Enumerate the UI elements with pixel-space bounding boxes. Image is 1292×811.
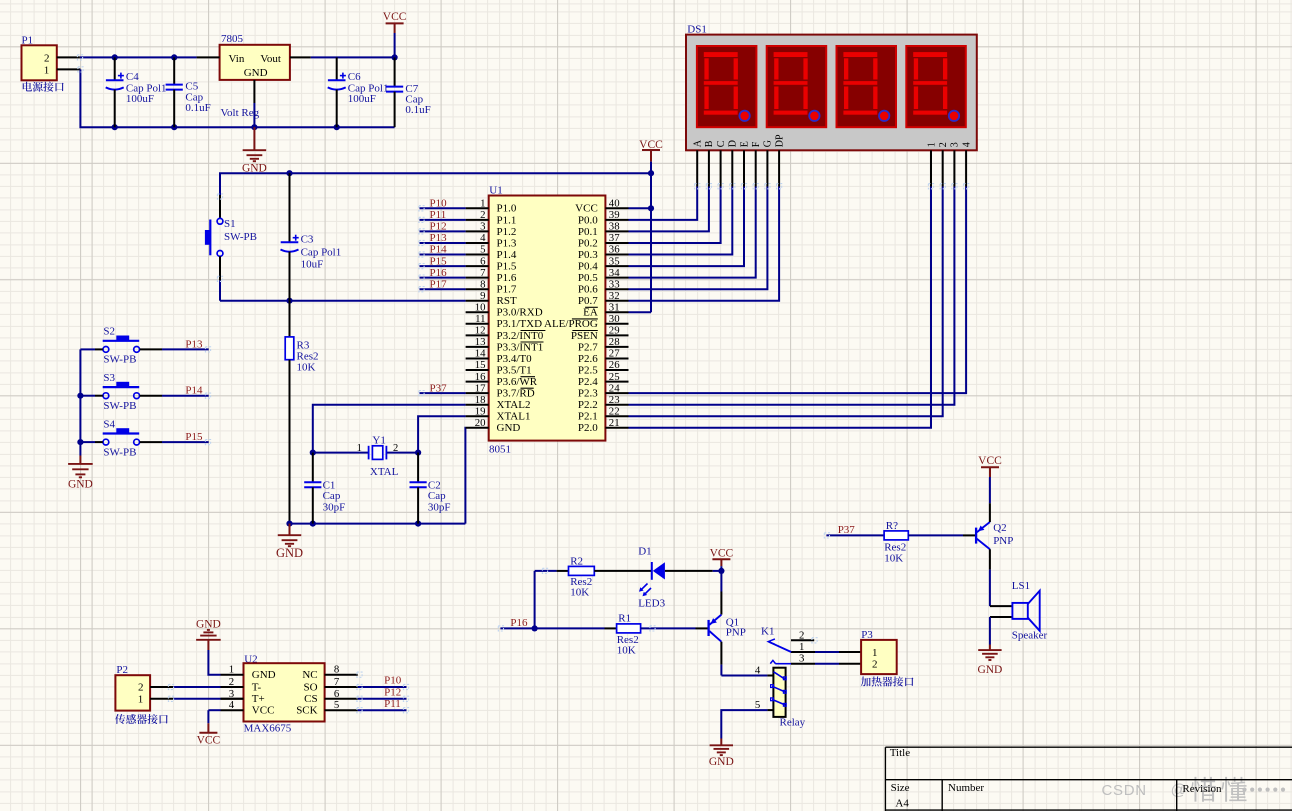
power port VCC at Q2 (978, 455, 1002, 477)
svg-text:P13: P13 (430, 232, 448, 244)
svg-text:3: 3 (480, 221, 485, 233)
pushbutton S3 (103, 372, 140, 412)
U1 pin 11 (P3.1/TXD) (466, 313, 542, 330)
svg-text:0.1uF: 0.1uF (405, 104, 430, 116)
resistor R3 (285, 301, 318, 524)
LED D1 (638, 545, 665, 609)
svg-text:P17: P17 (430, 278, 448, 290)
pushbutton S1 (205, 195, 257, 256)
wire R2 to D1 (594, 570, 652, 572)
svg-text:4: 4 (480, 232, 486, 244)
svg-text:34: 34 (609, 267, 620, 279)
wire Q2 collector to speaker (989, 549, 991, 606)
svg-text:27: 27 (609, 348, 620, 360)
svg-text:32: 32 (609, 290, 620, 302)
capacitor C5 (166, 57, 211, 127)
junction dot rail at C3 (286, 170, 292, 176)
wire+net label P37 (420, 382, 466, 394)
U1 pin 18 (XTAL2) (466, 394, 531, 411)
U1 pin 40 (VCC) (575, 198, 628, 215)
svg-text:GND: GND (276, 546, 303, 560)
wire crystal pin2 to XTAL1 (418, 416, 466, 452)
svg-text:P12: P12 (430, 221, 447, 233)
svg-text:P2.4: P2.4 (578, 376, 598, 388)
svg-text:P15: P15 (185, 431, 203, 443)
capacitor C3 (281, 173, 342, 301)
wire S4 to net label P15 (140, 431, 209, 443)
U1 pin 26 (P2.5) (578, 359, 629, 376)
svg-text:P2: P2 (116, 664, 128, 676)
U1 pin 5 (P1.4) (466, 244, 517, 261)
svg-text:26: 26 (609, 359, 620, 371)
svg-text:1: 1 (138, 693, 144, 705)
svg-text:P0.6: P0.6 (578, 284, 598, 296)
U1 pin 17 (P3.7/RD) (466, 382, 535, 399)
power port VCC (regulator output) (383, 11, 407, 58)
wire+net label P16 (420, 267, 466, 279)
svg-text:17: 17 (475, 382, 486, 394)
U2 pin 3 (T+) (221, 688, 265, 705)
svg-text:Vin: Vin (229, 53, 245, 65)
svg-text:Number: Number (948, 782, 984, 794)
display DS1 body (686, 23, 977, 150)
svg-text:P15: P15 (430, 255, 448, 267)
junction dot P16/R2 (532, 625, 538, 631)
svg-text:Relay: Relay (780, 716, 806, 728)
U2 pin 2 (T-) (221, 676, 262, 693)
svg-text:22: 22 (609, 405, 620, 417)
svg-text:XTAL1: XTAL1 (497, 411, 531, 423)
svg-text:P37: P37 (430, 382, 448, 394)
svg-text:1: 1 (872, 647, 878, 659)
svg-text:36: 36 (609, 244, 620, 256)
wire-end no-ERC marks (77, 55, 968, 713)
resistor R2 (535, 556, 595, 599)
svg-text:Q2: Q2 (993, 522, 1006, 534)
svg-text:P13: P13 (185, 338, 203, 350)
svg-text:SCK: SCK (296, 705, 317, 717)
ground symbol below 7805 (242, 127, 267, 174)
wire U1 P2.3 to DS1 digit 4 (629, 187, 967, 394)
wire U2 VCC pin to VCC port (208, 709, 220, 711)
svg-text:2: 2 (872, 659, 878, 671)
U1 pin 19 (XTAL1) (466, 405, 531, 422)
svg-text:21: 21 (609, 417, 620, 429)
svg-text:S4: S4 (103, 418, 115, 430)
U2 pin 5 (SCK) (296, 699, 358, 716)
svg-text:NC: NC (302, 669, 317, 681)
wire U2 to net label P11 (358, 698, 407, 710)
junction dot at VCC column (392, 54, 398, 60)
svg-text:10K: 10K (617, 645, 636, 657)
svg-text:C3: C3 (301, 234, 314, 246)
crystal Y1 (313, 435, 418, 478)
7805 GND pin (253, 80, 255, 127)
svg-text:PNP: PNP (726, 627, 746, 639)
DS1 digit 1 (697, 46, 757, 127)
svg-text:P16: P16 (430, 267, 448, 279)
U1 pin 20 (GND) (466, 417, 521, 434)
wire U1 P0.3 to DS1 segment D (629, 187, 733, 255)
power port VCC at Q1 (710, 548, 734, 571)
svg-text:P2.5: P2.5 (578, 364, 598, 376)
svg-text:C6: C6 (348, 71, 361, 83)
svg-text:P2.0: P2.0 (578, 422, 598, 434)
junction dot RST at C3/R3 (286, 298, 292, 304)
wire speaker to GND (989, 617, 991, 645)
svg-text:25: 25 (609, 371, 620, 383)
wire U2 to net label P12 (358, 686, 407, 698)
wire GND to U2 pin1 (208, 650, 220, 675)
wire U1 P0.1 to DS1 segment B (629, 187, 709, 232)
wire+net label P15 (420, 255, 466, 267)
svg-text:P1.3: P1.3 (497, 237, 517, 249)
svg-text:4: 4 (229, 699, 235, 711)
svg-text:P2.1: P2.1 (578, 411, 598, 423)
svg-text:16: 16 (475, 371, 486, 383)
svg-text:B: B (704, 140, 715, 147)
U1 pin 25 (P2.4) (578, 371, 629, 388)
P1 pin 2 (57, 56, 80, 58)
svg-text:24: 24 (609, 382, 620, 394)
U1 pin 3 (P1.2) (466, 221, 517, 238)
wire U1 pin40 to VCC (629, 207, 652, 209)
relay K1 coil (771, 668, 806, 729)
wire S2 to net label P13 (140, 338, 209, 350)
U1 pin 30 (ALE/PROG) (544, 313, 628, 330)
svg-text:SW-PB: SW-PB (224, 231, 257, 243)
svg-text:LS1: LS1 (1012, 580, 1030, 592)
svg-text:D: D (728, 140, 739, 147)
U1 pin 12 (P3.2/INT0) (466, 325, 546, 342)
svg-text:14: 14 (475, 348, 486, 360)
wire U1 P2.1 to DS1 digit 2 (629, 187, 943, 417)
wire net P16 to R1 (500, 617, 616, 629)
svg-text:39: 39 (609, 209, 620, 221)
svg-text:Cap: Cap (323, 490, 341, 502)
U2 pin 1 (GND) (221, 664, 276, 681)
svg-text:5: 5 (334, 699, 339, 711)
svg-text:MAX6675: MAX6675 (244, 722, 292, 734)
svg-text:P0.7: P0.7 (578, 295, 598, 307)
svg-text:40: 40 (609, 198, 620, 210)
svg-text:A: A (693, 139, 704, 147)
svg-text:EA: EA (583, 307, 598, 319)
svg-text:28: 28 (609, 336, 620, 348)
svg-text:2: 2 (938, 142, 949, 147)
svg-text:35: 35 (609, 255, 620, 267)
svg-text:8: 8 (334, 664, 339, 676)
wire P1.1 down to ground rail (80, 69, 394, 127)
svg-text:5: 5 (480, 244, 485, 256)
capacitor C6 (328, 57, 389, 127)
transistor Q1 PNP (709, 615, 746, 642)
U1 pin 29 (PSEN) (571, 325, 629, 342)
svg-text:SO: SO (304, 681, 318, 693)
pushbutton S4 (103, 418, 140, 458)
svg-text:SW-PB: SW-PB (103, 354, 136, 366)
svg-text:VCC: VCC (197, 735, 221, 747)
ground symbol below R3 (276, 524, 303, 560)
svg-text:K1: K1 (761, 626, 774, 638)
svg-text:30pF: 30pF (323, 501, 346, 513)
svg-text:GND: GND (709, 756, 734, 768)
wire S1 to RST (219, 256, 221, 300)
svg-text:Revision: Revision (1182, 783, 1222, 795)
wire up to R2 (534, 571, 536, 629)
junction dots crystal pins (310, 450, 422, 456)
svg-text:S1: S1 (224, 218, 236, 230)
U1 pin 4 (P1.3) (466, 232, 517, 249)
svg-text:10: 10 (475, 301, 486, 313)
U1 pin 14 (P3.4/T0) (466, 348, 533, 365)
svg-text:4: 4 (961, 142, 972, 147)
svg-text:P1.4: P1.4 (497, 249, 517, 261)
ground symbol above U2 (flipped) (196, 618, 221, 650)
svg-text:3: 3 (799, 653, 804, 665)
U1 pin 8 (P1.7) (466, 278, 517, 295)
svg-text:1: 1 (44, 64, 50, 76)
wire rail to U1 GND pin (464, 428, 466, 524)
wire net P37 to R? (826, 524, 884, 536)
svg-text:38: 38 (609, 221, 620, 233)
wire P2.2 to U2 T- (150, 686, 243, 688)
svg-text:S3: S3 (103, 372, 115, 384)
U2 pin 4 (VCC) (221, 699, 275, 716)
svg-text:P0.3: P0.3 (578, 249, 598, 261)
U1 pin 33 (P0.6) (578, 278, 629, 295)
DS1 digit 3 (837, 46, 897, 127)
svg-text:P2.6: P2.6 (578, 353, 598, 365)
wire U1 P2.0 to DS1 digit 1 (629, 187, 932, 428)
wire+net label P13 (420, 232, 466, 244)
svg-text:100uF: 100uF (126, 93, 154, 105)
U1 pin 15 (P3.5/T1) (466, 359, 532, 376)
svg-text:VCC: VCC (575, 203, 598, 215)
svg-text:F: F (751, 141, 762, 147)
svg-text:P14: P14 (185, 385, 203, 397)
svg-text:1: 1 (926, 142, 937, 147)
svg-text:GND: GND (68, 479, 93, 491)
key ground rail (79, 349, 81, 455)
U1 pin 37 (P0.2) (578, 232, 629, 249)
svg-text:9: 9 (480, 290, 485, 302)
svg-text:2: 2 (138, 682, 144, 694)
wire VCC to Q1 emitter (720, 571, 722, 615)
wire P2.1 to U2 T+ (150, 698, 243, 700)
CSDN watermark (1102, 777, 1286, 802)
svg-text:2: 2 (480, 209, 485, 221)
svg-text:13: 13 (475, 336, 486, 348)
svg-text:R?: R? (886, 520, 898, 532)
svg-text:P3.7/RD: P3.7/RD (497, 388, 535, 400)
svg-text:VCC: VCC (710, 548, 734, 560)
svg-text:GND: GND (252, 669, 276, 681)
IC U1 8051 body (489, 184, 606, 455)
svg-text:Res2: Res2 (884, 542, 906, 554)
U1 pin 6 (P1.5) (466, 255, 517, 272)
svg-text:C: C (716, 140, 727, 147)
wire VCC to Q2 emitter (989, 477, 991, 522)
junction dot VCC/Q1 (718, 568, 724, 574)
wire rail to S4 (80, 441, 102, 443)
wire U1 P0.6 to DS1 segment G (629, 187, 768, 290)
U1 pin 23 (P2.2) (578, 394, 629, 411)
svg-text:1: 1 (229, 664, 234, 676)
wire crystal pin1 to XTAL2 (313, 405, 466, 453)
svg-text:P3.5/T1: P3.5/T1 (497, 364, 532, 376)
resistor R1 (617, 612, 641, 656)
U1 pin 2 (P1.1) (466, 209, 517, 226)
svg-text:RST: RST (497, 295, 517, 307)
wire RST net (220, 300, 466, 302)
wire GND-net rail to VCC column (220, 173, 651, 195)
wire+net label P10 (420, 198, 466, 210)
svg-text:30: 30 (609, 313, 620, 325)
svg-text:P0.1: P0.1 (578, 226, 598, 238)
DS1 pins (697, 150, 966, 186)
svg-text:2: 2 (799, 629, 804, 641)
power port VCC below U2 (flipped) (197, 710, 221, 746)
svg-text:2: 2 (44, 52, 50, 64)
svg-text:6: 6 (334, 688, 340, 700)
svg-text:P0.0: P0.0 (578, 214, 598, 226)
U1 pin 27 (P2.6) (578, 348, 629, 365)
U2 pin 6 (CS) (304, 688, 358, 705)
svg-text:R1: R1 (618, 612, 631, 624)
svg-text:P11: P11 (384, 698, 401, 710)
svg-text:SW-PB: SW-PB (103, 400, 136, 412)
svg-text:XTAL2: XTAL2 (497, 399, 531, 411)
svg-text:Cap: Cap (428, 490, 446, 502)
svg-text:100uF: 100uF (348, 93, 376, 105)
svg-text:7805: 7805 (221, 33, 244, 45)
svg-text:P1.5: P1.5 (497, 261, 517, 273)
U1 pin 7 (P1.6) (466, 267, 517, 284)
svg-text:XTAL: XTAL (370, 466, 399, 478)
svg-text:12: 12 (475, 325, 486, 337)
svg-text:T-: T- (252, 681, 262, 693)
svg-text:P37: P37 (838, 524, 856, 536)
svg-text:VCC: VCC (978, 455, 1002, 467)
wire R1 to Q1 base (641, 627, 708, 629)
svg-text:Title: Title (890, 747, 911, 759)
wire 7805 Vout to VCC (311, 56, 395, 58)
U1 pin 24 (P2.3) (578, 382, 629, 399)
svg-text:ALE/PROG: ALE/PROG (544, 318, 598, 330)
relay K1 contacts (761, 626, 861, 665)
DS1 digit 4 (906, 46, 966, 127)
U1 pin 39 (P0.0) (578, 209, 629, 226)
svg-text:10K: 10K (297, 362, 316, 374)
svg-text:SW-PB: SW-PB (103, 446, 136, 458)
svg-text:37: 37 (609, 232, 620, 244)
svg-text:D1: D1 (638, 545, 651, 557)
wire U1 P0.2 to DS1 segment C (629, 187, 721, 244)
svg-text:LED3: LED3 (638, 598, 665, 610)
svg-text:P3.0/RXD: P3.0/RXD (497, 307, 543, 319)
svg-text:18: 18 (475, 394, 486, 406)
svg-text:VCC: VCC (252, 705, 275, 717)
svg-text:GND: GND (196, 618, 221, 630)
svg-text:4: 4 (755, 665, 761, 677)
U1 pin 13 (P3.3/INT1) (466, 336, 544, 353)
svg-text:P3.3/INT1: P3.3/INT1 (497, 341, 544, 353)
capacitor C2 (410, 453, 451, 524)
svg-text:GND: GND (244, 67, 268, 79)
wire rail to S3 (80, 395, 102, 397)
svg-text:P3.6/WR: P3.6/WR (497, 376, 538, 388)
svg-text:2: 2 (393, 443, 398, 454)
DS1 digit pin labels 1-4 (926, 142, 972, 147)
DS1 digit 2 (767, 46, 827, 127)
svg-text:10K: 10K (570, 587, 589, 599)
junction dots top wire (112, 54, 178, 60)
junction dot VCC rail (648, 170, 654, 176)
svg-text:S2: S2 (103, 326, 115, 338)
svg-text:CS: CS (304, 693, 317, 705)
svg-text:7: 7 (480, 267, 486, 279)
U1 pin 1 (P1.0) (466, 198, 517, 215)
svg-text:R2: R2 (570, 556, 583, 568)
connector P2 (sensor input) (115, 664, 168, 724)
svg-text:A4: A4 (895, 798, 909, 810)
IC U2 MAX6675 body (244, 653, 325, 734)
U2 pin 7 (SO) (304, 676, 358, 693)
pushbutton S2 (103, 326, 140, 366)
svg-text:P14: P14 (430, 244, 448, 256)
svg-text:19: 19 (475, 405, 486, 417)
svg-text:P3.4/T0: P3.4/T0 (497, 353, 533, 365)
relay pin4 number (755, 665, 774, 677)
capacitor C7 (386, 57, 431, 127)
title block (885, 747, 1292, 811)
speaker LS1 (990, 580, 1048, 641)
svg-text:23: 23 (609, 394, 620, 406)
svg-text:P3.1/TXD: P3.1/TXD (497, 318, 543, 330)
svg-text:30pF: 30pF (428, 501, 451, 513)
junction dots crystal rail (286, 521, 421, 527)
wire U1 P2.2 to DS1 digit 3 (629, 187, 955, 405)
wire+net label P17 (420, 278, 466, 290)
svg-text:P2.3: P2.3 (578, 388, 598, 400)
svg-text:10uF: 10uF (301, 258, 324, 270)
svg-text:PNP: PNP (993, 535, 1013, 547)
U1 pin 35 (P0.4) (578, 255, 629, 272)
svg-text:8051: 8051 (489, 443, 511, 455)
7805 Vin pin (197, 56, 220, 58)
wire U1 P0.7 to DS1 segment DP (629, 187, 780, 301)
wire P1.2 to 7805 Vin (80, 56, 197, 58)
connector P3 (heater) (861, 629, 914, 687)
svg-text:10K: 10K (884, 553, 903, 565)
svg-text:G: G (763, 140, 774, 147)
transistor Q2 PNP (976, 522, 1013, 549)
svg-text:11: 11 (475, 313, 485, 325)
wire R? to Q2 base (908, 534, 975, 536)
wire U1 P0.4 to DS1 segment E (629, 187, 745, 267)
wire+net label P12 (420, 221, 466, 233)
svg-text:33: 33 (609, 278, 620, 290)
U1 pin 21 (P2.0) (578, 417, 629, 434)
svg-text:7: 7 (334, 676, 340, 688)
svg-text:VCC: VCC (383, 11, 407, 23)
svg-text:1: 1 (480, 198, 485, 210)
wire U2 to net label P10 (358, 675, 407, 687)
wire+net label P14 (420, 244, 466, 256)
svg-text:E: E (739, 141, 750, 147)
svg-text:P1.2: P1.2 (497, 226, 517, 238)
